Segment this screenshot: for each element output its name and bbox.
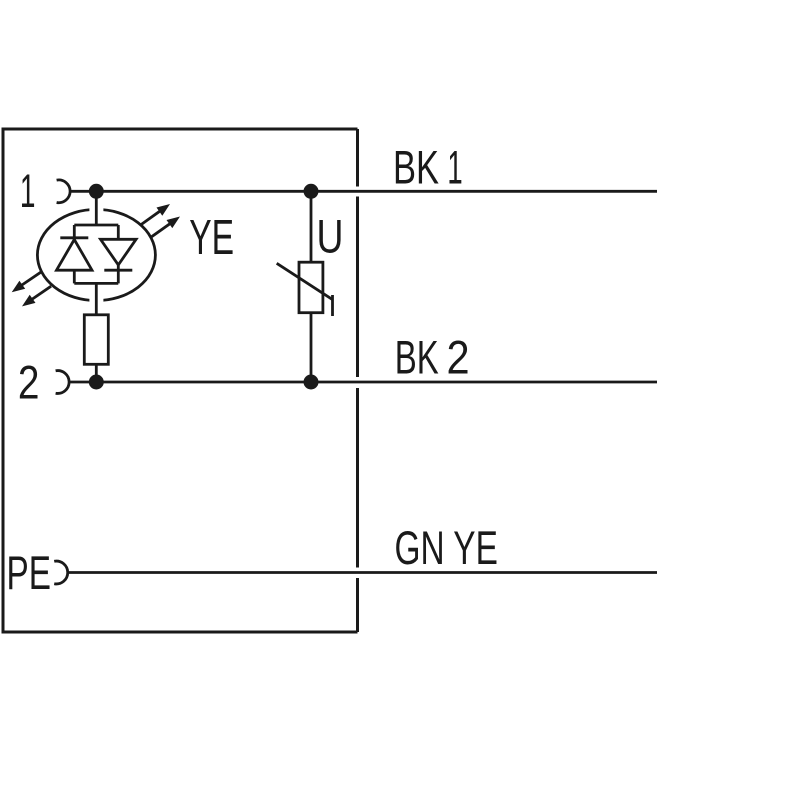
pin 1 contact arc	[57, 180, 71, 203]
diode D1 cathode bar	[60, 236, 88, 239]
diode D1 triangle	[57, 240, 93, 271]
node 1-varistor junction	[304, 184, 319, 199]
svg-text:PE: PE	[7, 546, 51, 599]
diode D2 cathode bar	[104, 269, 132, 272]
svg-text:1: 1	[20, 166, 36, 218]
diode D2 triangle	[101, 239, 137, 265]
arrow up-right 1	[141, 204, 171, 225]
varistor RU body	[299, 262, 323, 313]
LED inner frame bottom	[74, 282, 118, 285]
svg-text:BK: BK	[395, 331, 439, 384]
varistor diagonal stroke	[277, 263, 333, 299]
wire node1 to BK1	[70, 190, 657, 193]
varistor diagonal tail	[331, 295, 334, 316]
svg-text:1: 1	[447, 142, 462, 194]
varistor wire to node2	[310, 313, 313, 382]
wire node2 to BK2	[69, 381, 657, 384]
node 2-varistor junction	[304, 375, 319, 390]
ellipse wire gaps	[89, 203, 103, 307]
arrow down-left 2	[22, 286, 51, 306]
node 1-LED junction	[89, 184, 104, 199]
wire LED to resistor	[95, 283, 98, 314]
pin 2 contact arc	[56, 371, 70, 394]
svg-text:YE: YE	[189, 210, 234, 265]
svg-text:2: 2	[447, 332, 470, 384]
svg-text:2: 2	[18, 357, 40, 409]
enclosure box	[3, 129, 358, 632]
svg-text:BK: BK	[393, 141, 439, 193]
wire PE to GN YE	[68, 571, 657, 574]
svg-text:GN YE: GN YE	[395, 521, 498, 574]
LED inner frame top	[74, 224, 118, 227]
LED light arrows	[12, 204, 180, 306]
LED U1 ellipse	[37, 209, 155, 300]
wire resistor to node2	[95, 364, 98, 382]
LED inner frame right segments	[117, 225, 120, 283]
resistor R1	[84, 315, 108, 365]
arrow down-left 1	[12, 272, 41, 292]
varistor wire from node1	[310, 191, 313, 262]
arrow up-right 2	[151, 217, 180, 238]
junction dots	[89, 184, 319, 390]
wire node1 down to LED	[95, 191, 98, 225]
svg-text:U: U	[317, 210, 344, 262]
pin PE contact arc	[54, 561, 68, 584]
node 2-resistor junction	[89, 375, 104, 390]
LED inner frame left segments	[73, 225, 76, 283]
